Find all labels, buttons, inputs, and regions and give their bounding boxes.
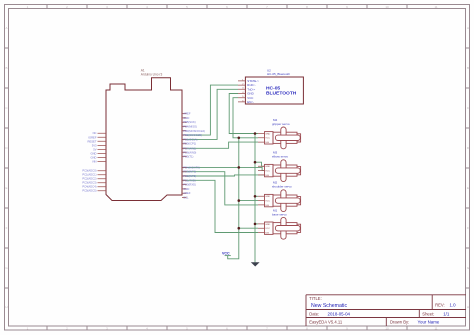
svg-text:EasyEDA V5.4.11: EasyEDA V5.4.11 xyxy=(309,319,343,324)
svg-text:AREF: AREF xyxy=(183,191,191,195)
svg-text:E: E xyxy=(5,186,7,190)
wire GND tap to M1 pin1 xyxy=(255,223,258,225)
arduino right pin stubs xyxy=(182,114,187,198)
wire GND tap to M3 pin1 xyxy=(255,162,265,166)
wire VCC trunk xyxy=(228,138,239,259)
HC-05 pin stubs xyxy=(238,81,245,102)
svg-text:VIN: VIN xyxy=(92,160,97,164)
svg-text:Sheet:: Sheet: xyxy=(422,311,434,316)
svg-text:BLUETOOTH: BLUETOOTH xyxy=(266,91,297,97)
svg-text:GND: GND xyxy=(265,196,270,198)
svg-text:PD4(XCK/T0): PD4(XCK/T0) xyxy=(183,165,200,169)
title block xyxy=(306,295,466,326)
svg-text:H: H xyxy=(5,305,7,309)
svg-text:SIG: SIG xyxy=(265,232,269,234)
wire M2 signal from Arduino xyxy=(182,172,258,205)
power VCC netflag xyxy=(222,251,231,255)
arduino left pin stubs xyxy=(98,133,107,191)
arduino right pin labels xyxy=(183,112,205,200)
svg-text:PB3(MOSI/OC2A): PB3(MOSI/OC2A) xyxy=(183,129,205,133)
svg-text:GND: GND xyxy=(265,166,270,168)
svg-text:VCC: VCC xyxy=(265,138,270,140)
wire GND trunk xyxy=(254,134,256,263)
svg-text:PB1(OC1A): PB1(OC1A) xyxy=(183,137,197,141)
wire GND from HC-05 to M4 pin1 xyxy=(229,94,258,134)
svg-text:GND: GND xyxy=(91,151,97,155)
svg-text:NC: NC xyxy=(93,131,97,135)
svg-text:HC-05_Bluetooth: HC-05_Bluetooth xyxy=(267,72,290,76)
junction GND trunk at M4 pin1 xyxy=(254,132,257,135)
junction GND trunk at M1 pin1 xyxy=(254,223,257,226)
svg-text:SIG: SIG xyxy=(265,175,269,177)
svg-text:PB0(ICP1): PB0(ICP1) xyxy=(183,142,196,146)
junction GND trunk at M3 tap xyxy=(254,161,257,164)
svg-text:PB5(SCK): PB5(SCK) xyxy=(183,120,196,124)
svg-text:11: 11 xyxy=(434,5,437,9)
svg-text:H: H xyxy=(467,305,469,309)
svg-text:SIG: SIG xyxy=(265,142,269,144)
svg-text:PD7(AIN1): PD7(AIN1) xyxy=(183,146,196,150)
junction VCC trunk at M3 tap xyxy=(238,166,241,169)
svg-text:AREF: AREF xyxy=(183,112,191,116)
svg-text:VCC: VCC xyxy=(265,201,270,203)
svg-text:shoulder servo: shoulder servo xyxy=(272,185,292,189)
wire GND tap to M2 pin1 xyxy=(255,195,258,197)
servo M3 elbow xyxy=(258,151,301,182)
svg-text:Drawn By:: Drawn By: xyxy=(390,319,409,324)
svg-text:2018-05-04: 2018-05-04 xyxy=(328,311,351,316)
svg-text:Your Name: Your Name xyxy=(418,319,440,324)
wire M4 signal from Arduino xyxy=(182,142,258,148)
svg-text:VCC: VCC xyxy=(265,228,270,230)
junction VCC trunk at M2 pin2 xyxy=(238,199,241,202)
svg-text:PD5(T1): PD5(T1) xyxy=(183,155,193,159)
svg-text:gripper servo: gripper servo xyxy=(272,122,290,126)
svg-text:IOREF: IOREF xyxy=(88,135,97,139)
svg-text:PC5(ADC5): PC5(ADC5) xyxy=(82,189,96,193)
svg-text:New Schematic: New Schematic xyxy=(311,303,347,309)
module U2 HC-05 bluetooth xyxy=(238,68,303,104)
svg-text:PD3(INT1): PD3(INT1) xyxy=(183,170,196,174)
wire M3 signal from Arduino xyxy=(182,175,265,176)
svg-text:REV:: REV: xyxy=(435,303,445,308)
svg-text:VCC: VCC xyxy=(265,171,270,173)
svg-text:PC4(ADC4): PC4(ADC4) xyxy=(82,185,96,189)
svg-text:3V3: 3V3 xyxy=(92,143,97,147)
junction VCC trunk at M1 pin2 xyxy=(238,227,241,230)
arduino A1 xyxy=(82,69,205,201)
svg-text:10: 10 xyxy=(385,327,389,331)
wire M1 signal from Arduino xyxy=(182,180,258,232)
svg-text:11: 11 xyxy=(434,327,437,331)
wire net TXD: HC-05 TxD to Arduino xyxy=(182,89,238,139)
servo M4 gripper xyxy=(258,118,301,149)
ground arrow xyxy=(251,262,260,266)
svg-text:VCC: VCC xyxy=(222,251,230,255)
svg-text:elbow servo: elbow servo xyxy=(272,155,288,159)
wire VCC from Arduino to M3 pin2 xyxy=(182,167,265,170)
svg-text:Date:: Date: xyxy=(309,311,319,316)
svg-text:1/1: 1/1 xyxy=(443,311,450,316)
junction GND trunk at M2 pin1 xyxy=(254,195,257,198)
svg-text:EN<-: EN<- xyxy=(247,100,254,104)
svg-text:PC0(ADC0): PC0(ADC0) xyxy=(82,169,96,173)
svg-text:F: F xyxy=(467,226,469,230)
servo M1 base xyxy=(258,208,301,239)
svg-text:SCL: SCL xyxy=(183,196,189,200)
svg-text:SIG: SIG xyxy=(265,205,269,207)
svg-text:1.0: 1.0 xyxy=(450,303,457,308)
wire VCC tap to M1 pin2 xyxy=(239,227,258,229)
svg-text:PB2(SS/OC1B): PB2(SS/OC1B) xyxy=(183,133,202,137)
svg-text:PC1(ADC1): PC1(ADC1) xyxy=(82,173,96,177)
svg-text:PD2(INT0): PD2(INT0) xyxy=(183,174,196,178)
wire VCC from HC-05 to M4 pin2 xyxy=(233,98,258,138)
junction VCC trunk at M4 pin2 xyxy=(238,137,241,140)
svg-text:GND: GND xyxy=(91,156,97,160)
svg-text:TITLE:: TITLE: xyxy=(309,296,322,301)
svg-text:E: E xyxy=(467,186,469,190)
arduino left pin labels xyxy=(82,131,97,193)
svg-text:A: A xyxy=(5,26,7,30)
svg-text:F: F xyxy=(6,226,8,230)
svg-text:B: B xyxy=(5,66,7,70)
wire net RXD: HC-05 RxD to Arduino xyxy=(182,85,238,135)
svg-text:PD6(AIN0): PD6(AIN0) xyxy=(183,150,196,154)
servo M2 shoulder xyxy=(258,181,301,212)
svg-text:PC2(ADC2): PC2(ADC2) xyxy=(82,177,96,181)
svg-text:base servo: base servo xyxy=(272,212,287,216)
svg-text:GND: GND xyxy=(265,133,270,135)
svg-text:10: 10 xyxy=(385,5,389,9)
svg-text:5V: 5V xyxy=(93,147,96,151)
svg-text:PD1(TXD): PD1(TXD) xyxy=(183,178,195,182)
svg-text:Arduino Uno r3: Arduino Uno r3 xyxy=(141,72,163,76)
svg-text:RESET: RESET xyxy=(88,139,97,143)
HC-05 pin numbers xyxy=(242,79,244,102)
svg-text:GND: GND xyxy=(265,224,270,226)
wire VCC tap to M2 pin2 xyxy=(239,200,258,202)
svg-text:B: B xyxy=(467,66,469,70)
HC-05 pin names xyxy=(247,79,259,104)
svg-text:GND: GND xyxy=(183,116,189,120)
svg-text:PD0(RXD): PD0(RXD) xyxy=(183,183,196,187)
svg-text:PB4(MISO): PB4(MISO) xyxy=(183,125,197,129)
svg-text:A: A xyxy=(467,26,469,30)
svg-text:GND: GND xyxy=(183,187,189,191)
svg-text:PC3(ADC3): PC3(ADC3) xyxy=(82,181,96,185)
